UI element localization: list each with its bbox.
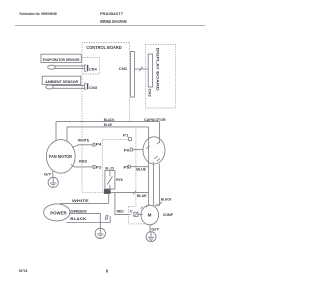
wire capacitor to compressor BLACK [158,164,160,206]
svg-text:BLUE: BLUE [104,123,113,127]
wire power green to ground [69,214,101,229]
overload protector OL [130,210,143,217]
dashed chassis line left [82,122,104,193]
svg-text:M: M [148,212,152,217]
cable slash mark on CN1-CN2 wire [139,67,142,72]
wire CN junction to blue compressor wire [111,192,149,194]
evaporator sensor bulb loop [48,65,56,69]
ground (compressor) [146,232,156,242]
fan motor M1 [46,140,75,174]
connector CN4 [85,65,89,71]
svg-text:FRA054XT7: FRA054XT7 [100,12,123,16]
wire blue down to compressor [148,127,150,205]
wire P6 to capacitor [133,149,144,151]
capacitor C1 body [143,137,165,164]
svg-text:C: C [130,210,133,214]
svg-text:P6: P6 [124,148,130,152]
ground (fan motor) [48,177,58,187]
label CN2 (rotated) [148,89,152,97]
svg-text:FAN MOTOR: FAN MOTOR [49,154,72,159]
svg-text:WHITE: WHITE [78,139,90,143]
wire ambient sensor to CN3 (pair) [53,86,85,89]
wire power black [67,216,111,223]
wire blue lead into fan motor [66,127,68,142]
connector CN3 [85,83,89,89]
compressor terminal ticks S C R [141,204,158,209]
display board U2 dashed box [146,45,176,109]
spade terminal P6 [130,148,132,151]
dashed wire P1 to relay branch [102,139,128,192]
svg-text:CN4: CN4 [89,67,97,71]
wire fan motor red to P2 [71,165,93,167]
control board U1 box [82,43,130,122]
svg-text:P4: P4 [96,143,102,147]
svg-text:POWER: POWER [50,211,67,216]
spade terminal P4 [93,143,95,146]
svg-text:BLACK: BLACK [161,197,172,201]
svg-text:AMBIENT SENSOR: AMBIENT SENSOR [45,80,79,84]
svg-text:WIRING DIAGRAM: WIRING DIAGRAM [100,19,127,24]
wire power white [60,202,109,204]
svg-text:BLUE: BLUE [136,168,146,172]
svg-text:CN2: CN2 [148,89,152,97]
connector block CN (relay output junction) [104,189,111,194]
svg-text:CN3: CN3 [89,86,97,90]
svg-text:BLACK: BLACK [104,118,115,122]
dashed mid vertical line [135,128,137,206]
wire P5 to blue compressor wire [130,166,148,168]
slash mark on compressor black wire [157,202,162,206]
svg-text:BLUE: BLUE [137,194,147,198]
spade terminal on power black wire [105,215,108,219]
ground (power green) [95,228,105,238]
cable slash on CN junction wire [133,191,136,195]
spade terminal P2 [93,165,95,168]
wire black bus down to capacitor top [158,122,160,143]
svg-text:RY6: RY6 [116,178,122,182]
compressor M2 [141,205,159,225]
svg-text:EVAPORATOR SENSOR: EVAPORATOR SENSOR [43,58,80,62]
evaporator sensor RT1 box [41,54,81,62]
dashed sensor connector group box [82,58,99,75]
power supply plug [44,204,70,221]
capacitor terminal ticks [146,142,160,161]
wire BLUE bus [67,126,149,128]
ambient sensor RT2 box [42,76,80,84]
svg-text:P1: P1 [123,134,129,138]
svg-text:G/Y: G/Y [44,173,52,177]
svg-text:DISPLAY BOARD: DISPLAY BOARD [156,48,160,91]
svg-text:RED: RED [117,210,124,214]
wire evaporator sensor to CN4 (pair) [55,66,85,69]
wire fan motor white to P4 [72,145,93,148]
wire white from power up to CN junction [108,194,110,204]
wire CN1 to CN2 [134,68,148,70]
svg-text:BLACK: BLACK [70,217,86,221]
dashed box around overload [128,207,146,224]
svg-text:Publication No: 5995259050: Publication No: 5995259050 [20,12,58,16]
svg-text:RED: RED [79,160,88,164]
svg-text:G/Y: G/Y [151,227,160,231]
connector CN2 [148,54,152,87]
svg-text:53716: 53716 [19,269,28,273]
svg-text:P2: P2 [96,165,102,169]
wire fan motor to ground [52,171,54,178]
ambient sensor bulb loop [46,85,54,89]
svg-text:K.O: K.O [105,166,114,170]
display board label (rotated) [156,48,160,91]
wire compressor to ground [149,225,151,232]
svg-text:CONTROL BOARD: CONTROL BOARD [86,45,121,50]
wire BLACK bus [56,121,159,123]
svg-text:6: 6 [106,268,109,273]
relay RY6 box [105,171,115,189]
wire capacitor bottom to compressor [152,162,154,206]
wire black lead into fan motor [55,122,57,141]
connector CN1 [131,52,135,98]
header rule [15,25,205,27]
spade terminal P1 [129,138,132,141]
svg-text:GREEN: GREEN [70,209,87,213]
spade terminal P5 [128,165,130,168]
wire RED branch to overload [115,193,131,215]
svg-text:COMP: COMP [163,213,174,217]
svg-text:WHITE: WHITE [72,199,89,203]
relay contact symbol [107,171,112,189]
svg-text:CN1: CN1 [119,67,128,71]
